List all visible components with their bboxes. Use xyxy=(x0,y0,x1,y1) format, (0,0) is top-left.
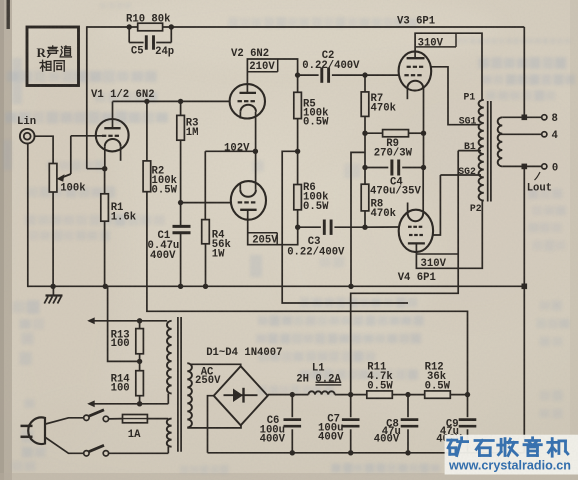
wire 8 ohm tap xyxy=(502,113,558,125)
transformer T1 winding mains xyxy=(167,419,172,454)
node V1 cathode xyxy=(102,166,107,171)
wire V4 screen to SG2 xyxy=(433,175,441,235)
capacitor C3 xyxy=(287,220,365,259)
label 205V xyxy=(248,233,279,247)
node R3 top xyxy=(178,99,183,104)
label 310V V4 xyxy=(416,254,458,270)
wire SG1 tap xyxy=(459,115,477,126)
tube V2 6N2 upper xyxy=(230,48,298,151)
resistor R3 xyxy=(177,101,199,202)
resistor R11 xyxy=(351,362,408,399)
switch S1a xyxy=(84,410,109,422)
ground symbol xyxy=(44,286,62,303)
transformer T2 core xyxy=(488,101,491,202)
transformer T2 secondary xyxy=(498,117,503,166)
capacitor C5 xyxy=(129,27,174,58)
resistor R14 xyxy=(111,361,144,403)
node R3 bottom xyxy=(178,200,183,205)
wire pot to ground xyxy=(52,192,54,286)
node C2 junction xyxy=(295,72,300,77)
wire heater line 1 xyxy=(87,317,167,324)
node C2 out xyxy=(362,72,367,77)
node R4 ground xyxy=(203,284,208,289)
wire L1 to C7 node xyxy=(335,394,351,396)
node C7 top xyxy=(348,392,353,397)
node C8 top xyxy=(405,392,410,397)
capacitor C1 xyxy=(148,203,191,287)
connector Lin xyxy=(17,116,36,144)
wire bias chain to ground xyxy=(351,152,365,286)
wire HT top to bridge xyxy=(191,364,241,366)
node R13 top xyxy=(137,318,142,323)
transformer T1 core xyxy=(178,317,181,452)
tube V3 6P1 xyxy=(397,16,435,134)
wire Lin shield to ground xyxy=(27,143,29,287)
tube V4 6P1 xyxy=(398,168,436,285)
wire C3 to V4 grid xyxy=(365,226,400,228)
wire Lin to pot xyxy=(35,136,53,163)
tube V2 6N2 lower xyxy=(231,151,298,244)
label P1 xyxy=(464,91,476,102)
node C4 right xyxy=(421,165,426,170)
note box R channel same xyxy=(27,27,79,86)
node R2 top xyxy=(144,99,149,104)
node R14 bottom xyxy=(137,401,142,406)
inductor L1 xyxy=(296,363,341,395)
capacitor C6 xyxy=(260,395,302,456)
watermark crystalradio xyxy=(445,435,578,475)
label 210V xyxy=(247,59,277,73)
wire to V2 lower grid xyxy=(181,202,231,204)
page edge mark xyxy=(7,0,10,29)
wire 0 tap to bottom rail xyxy=(523,286,525,453)
transformer T2 primary xyxy=(479,100,484,201)
wire feedback from 8 ohm xyxy=(523,27,525,117)
resistor R9 xyxy=(365,130,424,160)
node C6 top xyxy=(290,392,295,397)
label AC 250V xyxy=(195,367,221,388)
wire plug upper xyxy=(46,418,84,424)
capacitor C9 xyxy=(436,395,476,453)
node R9 left xyxy=(362,131,367,136)
label 310V V3 xyxy=(416,33,456,49)
node C4 left xyxy=(362,165,367,170)
wire V4 plate to P2 xyxy=(416,200,482,268)
transformer T1 winding HT xyxy=(187,363,192,427)
capacitor C8 xyxy=(374,395,419,456)
node C1 ground xyxy=(178,284,183,289)
node pot ground xyxy=(50,284,55,289)
wire C2 to V3 grid xyxy=(365,74,400,76)
plug AC mains xyxy=(21,417,46,444)
wire heater mid to ground xyxy=(108,286,140,361)
wire bridge DC- to rail xyxy=(208,396,214,453)
node C9 top xyxy=(465,392,470,397)
wire 4 ohm tap xyxy=(500,130,559,142)
wire 0 tap to ground rail xyxy=(522,166,528,289)
node R6 bottom xyxy=(295,225,300,230)
resistor R6 xyxy=(294,151,329,227)
resistor R12 xyxy=(408,362,468,399)
wire bias chain xyxy=(364,133,366,167)
wire switch S1b to winding xyxy=(109,452,169,454)
wire feedback left drop xyxy=(86,26,88,169)
label Lout xyxy=(527,183,552,195)
wire bridge DC+ out xyxy=(268,394,309,396)
switch S1b xyxy=(84,445,109,456)
node V2 cathodes xyxy=(253,149,258,154)
wire feedback to V1 cathode xyxy=(87,168,105,170)
resistor R8 xyxy=(361,168,396,228)
wire 102V line xyxy=(205,142,255,154)
resistor R10 xyxy=(126,14,171,31)
node chain ground xyxy=(348,284,353,289)
resistor R4 xyxy=(202,151,232,286)
wire plug lower xyxy=(46,438,84,454)
node R9 right xyxy=(421,131,426,136)
wire splitter B+ drop xyxy=(282,151,408,303)
wire V3 plate to P1 xyxy=(415,33,482,100)
capacitor C2 xyxy=(298,50,365,83)
wire SG2 tap xyxy=(440,166,481,177)
node fb-right xyxy=(169,24,174,29)
wire V3 screen to SG1 xyxy=(431,67,481,125)
wire 0 tap xyxy=(502,163,558,180)
fuse 1A xyxy=(109,415,169,442)
label P2 xyxy=(470,203,482,214)
node C3 out xyxy=(362,225,367,230)
wire R2 to B+ rail xyxy=(147,192,468,395)
resistor R13 xyxy=(111,321,144,362)
wire V1 plate to V2 grid xyxy=(113,100,230,102)
resistor R7 xyxy=(361,75,396,133)
potentiometer 100k xyxy=(49,136,86,195)
node R1 ground xyxy=(103,284,108,289)
resistor R5 xyxy=(294,92,329,151)
node R5 R6 mid xyxy=(295,149,300,154)
resistor R1 xyxy=(101,169,137,286)
capacitor C4 xyxy=(365,160,424,198)
node fb-left xyxy=(127,24,132,29)
wire HT bottom to bridge xyxy=(187,425,241,428)
wire B1 tap xyxy=(458,141,481,152)
wire B1 to supply xyxy=(351,151,459,395)
wire bottom rail xyxy=(208,452,525,454)
capacitor C7 xyxy=(318,395,360,456)
resistor R2 xyxy=(143,101,177,196)
wire feedback top xyxy=(87,26,525,28)
wire ground rail xyxy=(28,285,525,287)
tube V1 1/2 6N2 xyxy=(71,89,155,169)
transformer T1 winding 6.3V xyxy=(167,321,172,404)
node R13 R14 mid xyxy=(137,359,142,364)
bridge rectifier D1-D4 xyxy=(206,347,282,425)
wire heater line 2 xyxy=(87,400,168,407)
wire cathode chain xyxy=(423,133,425,167)
